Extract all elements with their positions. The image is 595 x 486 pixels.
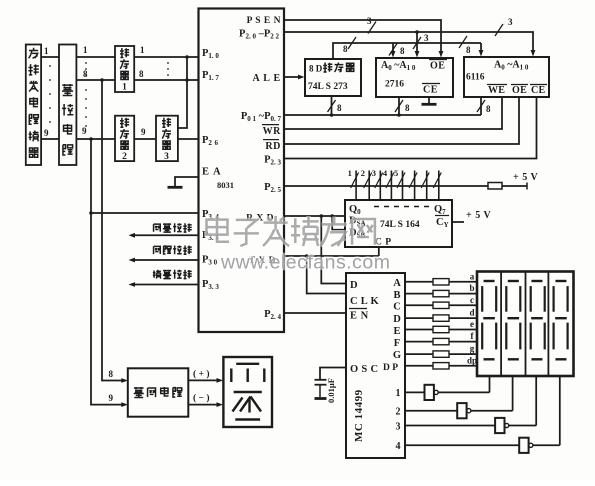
svg-text:74L S 164: 74L S 164 [380, 220, 420, 230]
svg-text:2: 2 [361, 168, 365, 178]
svg-text:OE: OE [430, 61, 445, 72]
svg-text:1: 1 [348, 168, 352, 178]
svg-text:( + ): ( + ) [193, 369, 210, 380]
svg-text:A: A [393, 278, 401, 289]
svg-text:4: 4 [396, 441, 401, 452]
svg-text:1: 1 [122, 83, 127, 93]
svg-text:+ 5 V: + 5 V [513, 172, 539, 183]
svg-text:3: 3 [424, 33, 429, 43]
svg-text:8: 8 [83, 69, 88, 79]
svg-text:CE: CE [531, 85, 546, 96]
svg-text:www.elecfans.com: www.elecfans.com [220, 252, 390, 274]
svg-text:E A: E A [202, 167, 222, 178]
svg-text:4: 4 [383, 168, 388, 178]
svg-text:3: 3 [372, 168, 376, 178]
svg-text:OE: OE [512, 85, 527, 96]
svg-text:2716: 2716 [385, 80, 404, 90]
svg-text:O S C: O S C [350, 364, 378, 375]
svg-text:8: 8 [400, 46, 405, 56]
svg-text:D: D [393, 314, 401, 325]
svg-text:8: 8 [109, 369, 114, 379]
svg-text:3: 3 [367, 16, 372, 26]
svg-text:B: B [393, 290, 400, 301]
svg-text:E N: E N [350, 311, 369, 322]
svg-text:A L E: A L E [253, 73, 281, 84]
svg-text:3: 3 [508, 17, 513, 27]
svg-text:C P: C P [375, 238, 392, 248]
svg-text:2: 2 [396, 407, 401, 418]
svg-text:8: 8 [343, 44, 348, 54]
svg-text:WR: WR [263, 126, 282, 137]
svg-text:9: 9 [82, 126, 87, 136]
svg-text:e: e [470, 319, 474, 329]
svg-text:5: 5 [394, 168, 398, 178]
svg-text:F: F [394, 338, 400, 349]
svg-text:3: 3 [164, 152, 169, 162]
svg-text:8: 8 [486, 104, 491, 114]
svg-text:1: 1 [140, 45, 145, 55]
svg-text:G: G [393, 350, 401, 361]
svg-text:dp: dp [467, 355, 477, 365]
svg-text:74L S 273: 74L S 273 [308, 82, 348, 92]
svg-text:D: D [350, 280, 358, 291]
svg-text:E: E [393, 326, 400, 337]
svg-text:C L K: C L K [350, 296, 379, 307]
svg-text:0.01μF: 0.01μF [326, 378, 336, 403]
svg-text:MC 14499: MC 14499 [353, 389, 365, 442]
svg-text:( − ): ( − ) [193, 393, 210, 404]
svg-text:C: C [393, 302, 401, 313]
svg-text:CE: CE [423, 85, 438, 96]
svg-text:1: 1 [44, 46, 49, 56]
svg-text:8: 8 [405, 103, 410, 113]
svg-text:8 D: 8 D [309, 64, 323, 74]
svg-text:8: 8 [139, 69, 144, 79]
svg-text:8: 8 [337, 103, 342, 113]
svg-text:6116: 6116 [466, 73, 485, 83]
svg-text:RD: RD [265, 141, 281, 152]
svg-text:8: 8 [466, 45, 471, 55]
svg-text:g: g [470, 344, 475, 354]
svg-text:D P: D P [383, 363, 398, 373]
svg-text:3: 3 [396, 422, 401, 433]
svg-text:2: 2 [122, 152, 127, 162]
svg-text:P S E N: P S E N [247, 16, 281, 26]
svg-text:9: 9 [109, 393, 114, 403]
svg-text:b: b [469, 283, 474, 293]
svg-text:d: d [469, 308, 474, 318]
svg-text:9: 9 [44, 128, 49, 138]
svg-text:WE: WE [488, 85, 505, 96]
svg-text:1: 1 [396, 388, 401, 399]
svg-text:+ 5 V: + 5 V [466, 210, 492, 221]
svg-text:9: 9 [141, 127, 146, 137]
svg-text:c: c [470, 295, 474, 305]
svg-text:1: 1 [83, 45, 88, 55]
svg-text:8031: 8031 [217, 180, 234, 190]
svg-text:a: a [470, 271, 475, 281]
